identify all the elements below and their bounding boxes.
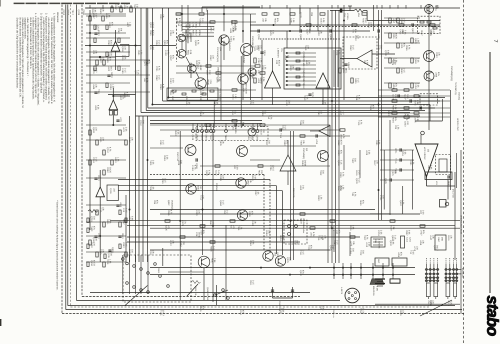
svg-text:30/25: 30/25 <box>109 167 112 173</box>
svg-text:R808 1.2k: R808 1.2k <box>194 286 197 296</box>
svg-text:L371: L371 <box>119 117 122 123</box>
svg-text:0.09: 0.09 <box>236 165 239 170</box>
svg-text:Q689: Q689 <box>329 34 332 40</box>
svg-text:0.07: 0.07 <box>342 110 345 115</box>
svg-text:2SC1623(F)/(G): 2SC1623(F)/(G) <box>216 47 219 62</box>
svg-text:Q802: Q802 <box>167 200 170 206</box>
svg-text:2SB562: 2SB562 <box>215 183 218 192</box>
svg-text:Hinweise:: Hinweise: <box>56 12 59 23</box>
svg-text:42/31: 42/31 <box>152 30 155 36</box>
svg-text:44/26: 44/26 <box>395 33 398 39</box>
svg-text:Q651: Q651 <box>302 84 305 90</box>
svg-text:0.02: 0.02 <box>364 18 367 23</box>
svg-text:36/44: 36/44 <box>198 232 201 238</box>
svg-text:34/17: 34/17 <box>436 245 439 251</box>
svg-text:D89: D89 <box>310 12 313 17</box>
svg-text:Q786: Q786 <box>257 34 260 40</box>
svg-text:39/3: 39/3 <box>110 66 113 71</box>
svg-text:0.01: 0.01 <box>272 30 275 35</box>
svg-text:C815 u.a.: C815 u.a. <box>332 309 335 318</box>
svg-text:0.15: 0.15 <box>158 40 161 45</box>
svg-text:Q840: Q840 <box>82 10 85 16</box>
svg-text:Q155: Q155 <box>109 188 112 194</box>
svg-text:0.15: 0.15 <box>403 68 406 73</box>
svg-text:3/32: 3/32 <box>208 70 211 75</box>
svg-text:D569: D569 <box>67 10 70 16</box>
svg-text:ANT: ANT <box>377 259 380 264</box>
svg-text:0.15: 0.15 <box>201 18 204 23</box>
svg-text:B8B PV05: B8B PV05 <box>292 188 295 198</box>
svg-text:C426: C426 <box>234 128 237 134</box>
svg-text:A.7BB: A.7BB <box>185 22 188 28</box>
svg-text:C464: C464 <box>347 62 350 68</box>
svg-text:T817: T817 <box>71 10 74 16</box>
svg-text:27/17: 27/17 <box>162 310 165 316</box>
svg-text:0.08: 0.08 <box>172 78 175 83</box>
svg-text:uPC1182H2: uPC1182H2 <box>423 147 426 160</box>
svg-text:R72.2: R72.2 <box>195 30 198 36</box>
svg-text:I21/I2(L): I21/I2(L) <box>458 92 461 100</box>
svg-text:4/26: 4/26 <box>390 110 393 115</box>
svg-text:B45A5251: B45A5251 <box>228 41 231 52</box>
svg-text:43/15: 43/15 <box>110 40 113 46</box>
svg-text:40/14: 40/14 <box>278 60 281 66</box>
svg-text:24/44: 24/44 <box>304 160 307 166</box>
svg-text:R1B: R1B <box>374 239 377 244</box>
svg-text:0.15: 0.15 <box>158 75 161 80</box>
svg-text:0.01: 0.01 <box>302 185 305 190</box>
svg-text:R652: R652 <box>447 181 450 187</box>
svg-text:0.15: 0.15 <box>250 135 253 140</box>
svg-text:Q129: Q129 <box>191 135 194 141</box>
svg-text:C534: C534 <box>429 30 432 36</box>
svg-text:C386: C386 <box>199 96 202 102</box>
svg-text:0.15: 0.15 <box>164 178 167 183</box>
svg-text:Q668: Q668 <box>299 34 302 40</box>
svg-text:22/15: 22/15 <box>272 165 275 171</box>
svg-text:2SC945(R): 2SC945(R) <box>302 148 305 159</box>
svg-text:Q416: Q416 <box>263 50 266 56</box>
svg-text:36/11: 36/11 <box>345 68 348 74</box>
svg-text:C812: C812 <box>62 10 65 16</box>
svg-text:S801: S801 <box>157 268 160 274</box>
svg-text:B85 PK08: B85 PK08 <box>372 286 375 296</box>
svg-text:0.15: 0.15 <box>124 68 127 73</box>
svg-text:D460: D460 <box>205 135 208 141</box>
svg-text:7: 7 <box>492 40 498 43</box>
svg-text:UF328 I 25/2: UF328 I 25/2 <box>456 118 459 131</box>
svg-text:R72.1: R72.1 <box>191 30 194 36</box>
svg-text:6.3k/63TB: 6.3k/63TB <box>377 239 380 249</box>
svg-text:17/6: 17/6 <box>209 79 212 84</box>
svg-text:40/33: 40/33 <box>93 260 96 266</box>
svg-text:47/9: 47/9 <box>340 140 343 145</box>
svg-text:0.03: 0.03 <box>252 100 255 105</box>
svg-text:0.15: 0.15 <box>284 125 287 130</box>
svg-text:Stueckliste der Chip-Bauteile: Stueckliste der Chip-Bauteile bitte stet… <box>16 18 19 89</box>
svg-text:C93: C93 <box>171 96 174 101</box>
svg-text:4-08/73: 4-08/73 <box>340 287 343 295</box>
svg-text:D286: D286 <box>256 135 259 141</box>
svg-text:2SC945(R)/(Q): 2SC945(R)/(Q) <box>450 66 453 81</box>
svg-text:L7B: L7B <box>242 88 245 92</box>
svg-text:RTGB: RTGB <box>198 30 201 36</box>
svg-text:0.15: 0.15 <box>358 178 361 183</box>
svg-text:12/18: 12/18 <box>97 25 100 31</box>
svg-text:0.04: 0.04 <box>189 50 192 55</box>
svg-text:2SC1846(R): 2SC1846(R) <box>251 36 254 48</box>
svg-text:0.04: 0.04 <box>152 45 155 50</box>
svg-text:DIN-Buchse: DIN-Buchse <box>302 222 305 234</box>
svg-text:31/34: 31/34 <box>362 308 365 314</box>
svg-text:Q476: Q476 <box>411 28 414 34</box>
svg-text:Q339: Q339 <box>77 10 80 16</box>
svg-text:L765: L765 <box>315 139 318 145</box>
svg-text:L.5980GY: L.5980GY <box>277 48 280 58</box>
svg-text:0.06: 0.06 <box>422 210 425 215</box>
svg-text:Q815 2SC945: Q815 2SC945 <box>206 287 209 301</box>
svg-text:0.15: 0.15 <box>336 240 339 245</box>
svg-text:0.15: 0.15 <box>352 45 355 50</box>
svg-text:R771: R771 <box>394 148 397 154</box>
svg-text:Q130: Q130 <box>299 12 302 18</box>
svg-text:M1.47 1B: M1.47 1B <box>452 189 455 198</box>
svg-text:0.15: 0.15 <box>403 18 406 23</box>
svg-text:0.15: 0.15 <box>95 157 98 162</box>
svg-text:10/19: 10/19 <box>152 22 155 28</box>
svg-text:0.15: 0.15 <box>302 250 305 255</box>
svg-text:0.15: 0.15 <box>406 94 409 99</box>
svg-text:* Werte koennen ohne vorherige: * Werte koennen ohne vorherige Ankuendig… <box>56 200 59 291</box>
svg-text:T116: T116 <box>279 133 282 139</box>
svg-text:R.RBB: R.RBB <box>188 22 191 29</box>
svg-text:1.3W: 1.3W <box>376 286 379 291</box>
svg-text:0.06: 0.06 <box>296 240 299 245</box>
svg-text:C.7BL: C.7BL <box>191 22 194 29</box>
svg-text:18/42: 18/42 <box>199 65 202 71</box>
svg-text:D8B: D8B <box>441 237 444 242</box>
svg-text:D.BBL: D.BBL <box>195 22 198 29</box>
svg-text:0.15: 0.15 <box>212 220 215 225</box>
svg-text:0.15: 0.15 <box>125 208 128 213</box>
svg-text:0.15: 0.15 <box>162 140 165 145</box>
svg-text:0.15: 0.15 <box>188 34 191 39</box>
svg-text:C8B7: C8B7 <box>437 237 440 243</box>
svg-text:470/16: 470/16 <box>346 13 349 20</box>
svg-text:0.15: 0.15 <box>125 242 128 247</box>
svg-text:R587: R587 <box>420 30 423 36</box>
svg-text:2N41B(2): 2N41B(2) <box>171 200 174 210</box>
svg-text:0.05: 0.05 <box>254 175 257 180</box>
svg-text:0.15: 0.15 <box>357 78 360 83</box>
svg-text:A4C1: A4C1 <box>406 237 409 243</box>
svg-text:TA7136P (S): TA7136P (S) <box>454 82 457 95</box>
svg-text:0.15: 0.15 <box>252 280 255 285</box>
svg-text:0.09: 0.09 <box>394 60 397 65</box>
svg-text:0.15: 0.15 <box>222 200 225 205</box>
svg-text:T710: T710 <box>394 158 397 164</box>
svg-text:0.01: 0.01 <box>122 95 125 100</box>
svg-text:0.15: 0.15 <box>226 210 229 215</box>
svg-text:R172: R172 <box>311 92 314 98</box>
svg-text:0.15: 0.15 <box>212 26 215 31</box>
svg-text:0.15: 0.15 <box>212 246 215 251</box>
